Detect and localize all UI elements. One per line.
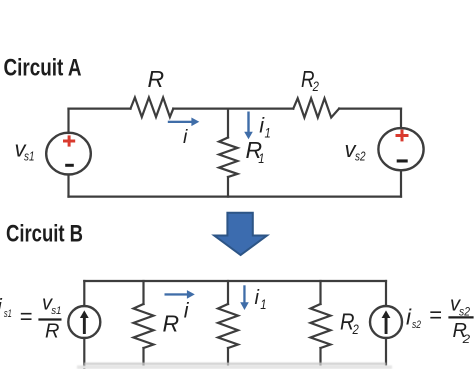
current arrow i (circuit A, blue right) <box>168 118 200 127</box>
label vs2 (circuit A) <box>345 137 366 164</box>
wire: circuit B middle branch upper <box>227 281 229 304</box>
wire: circuit A middle branch lower <box>227 177 229 197</box>
svg-text:i: i <box>255 287 260 309</box>
wire: circuit B left branch upper <box>83 281 85 306</box>
svg-text:Circuit B: Circuit B <box>6 221 83 248</box>
svg-text:i: i <box>0 294 3 318</box>
wire: circuit B branch R upper <box>142 281 144 304</box>
current source IS1 circle <box>68 306 100 338</box>
formula is1 = vs1/R <box>0 293 62 343</box>
svg-text:2: 2 <box>461 332 470 346</box>
label R2 (circuit A) <box>301 66 319 94</box>
label vs1 (circuit A) <box>15 137 35 164</box>
svg-text:R: R <box>148 66 165 92</box>
wire: circuit A left branch lower <box>67 175 69 197</box>
resistor R (circuit B, vertical) <box>134 304 154 348</box>
voltage source VS2 circle <box>378 128 423 170</box>
wire: circuit A bottom <box>69 196 402 198</box>
resistor R2 (circuit A) <box>293 98 339 117</box>
current arrow i (circuit B, blue right) <box>165 290 195 299</box>
wire: circuit A right branch lower <box>400 170 402 196</box>
wire: circuit B bottom (faint) <box>77 364 392 369</box>
voltage source VS1 circle <box>46 133 91 175</box>
wire: circuit B left branch lower <box>83 338 85 369</box>
label R2 (circuit B) <box>340 309 359 338</box>
wire: circuit B branch R2 lower <box>319 348 321 365</box>
svg-text:s1: s1 <box>4 308 12 320</box>
svg-text:1: 1 <box>265 125 271 141</box>
polarity minus of VS2 <box>397 159 408 162</box>
wire: circuit B branch R lower <box>142 348 144 365</box>
label i1 (circuit B) <box>255 287 267 312</box>
resistor R1 (circuit A, vertical) <box>219 138 238 178</box>
wire: circuit A middle branch upper <box>227 109 229 138</box>
resistor R2 (circuit B, vertical) <box>311 304 331 348</box>
resistor R (circuit A) <box>131 98 174 118</box>
transformation arrow (big blue down arrow) <box>214 213 267 255</box>
wire: circuit A top middle segment <box>173 107 293 109</box>
wire: circuit A top right segment <box>339 107 401 109</box>
current source IS1 arrow <box>80 310 89 334</box>
wire: circuit A left branch upper <box>67 109 69 133</box>
svg-text:s1: s1 <box>24 149 35 163</box>
svg-text:Circuit A: Circuit A <box>4 55 82 82</box>
svg-text:R: R <box>45 321 59 343</box>
svg-text:i: i <box>183 126 188 148</box>
wire: circuit A top left segment <box>69 107 131 109</box>
polarity plus of VS1 <box>63 135 75 146</box>
current source IS2 circle <box>370 306 402 338</box>
polarity plus of VS2 <box>396 130 409 142</box>
formula is2 = vs2/R2 <box>406 294 474 346</box>
wire: circuit B branch R2 upper <box>319 281 321 304</box>
wire: circuit B middle branch lower <box>227 348 229 365</box>
svg-text:s2: s2 <box>355 150 366 164</box>
svg-text:1: 1 <box>258 150 264 166</box>
svg-text:s1: s1 <box>51 305 61 317</box>
svg-text:2: 2 <box>312 78 319 94</box>
label R1 (circuit A) <box>246 137 265 166</box>
svg-text:R: R <box>163 311 180 337</box>
current arrow i1 (circuit A, blue down) <box>244 112 253 140</box>
svg-text:=: = <box>20 304 33 329</box>
wire: circuit B right branch lower <box>385 338 387 365</box>
polarity minus of VS1 <box>65 164 74 167</box>
svg-text:i: i <box>184 298 190 322</box>
svg-text:1: 1 <box>260 297 266 312</box>
resistor middle (circuit B, vertical) <box>218 304 238 348</box>
svg-text:s2: s2 <box>412 319 421 331</box>
label i1 (circuit A) <box>259 113 271 140</box>
current arrow i1 (circuit B, blue down) <box>240 285 249 310</box>
svg-text:=: = <box>429 303 442 328</box>
wire: circuit B right branch upper <box>385 281 387 306</box>
wire: circuit B top <box>84 280 386 282</box>
wire: circuit A right branch upper <box>400 109 402 129</box>
svg-text:2: 2 <box>352 321 359 337</box>
current source IS2 arrow <box>382 310 391 334</box>
